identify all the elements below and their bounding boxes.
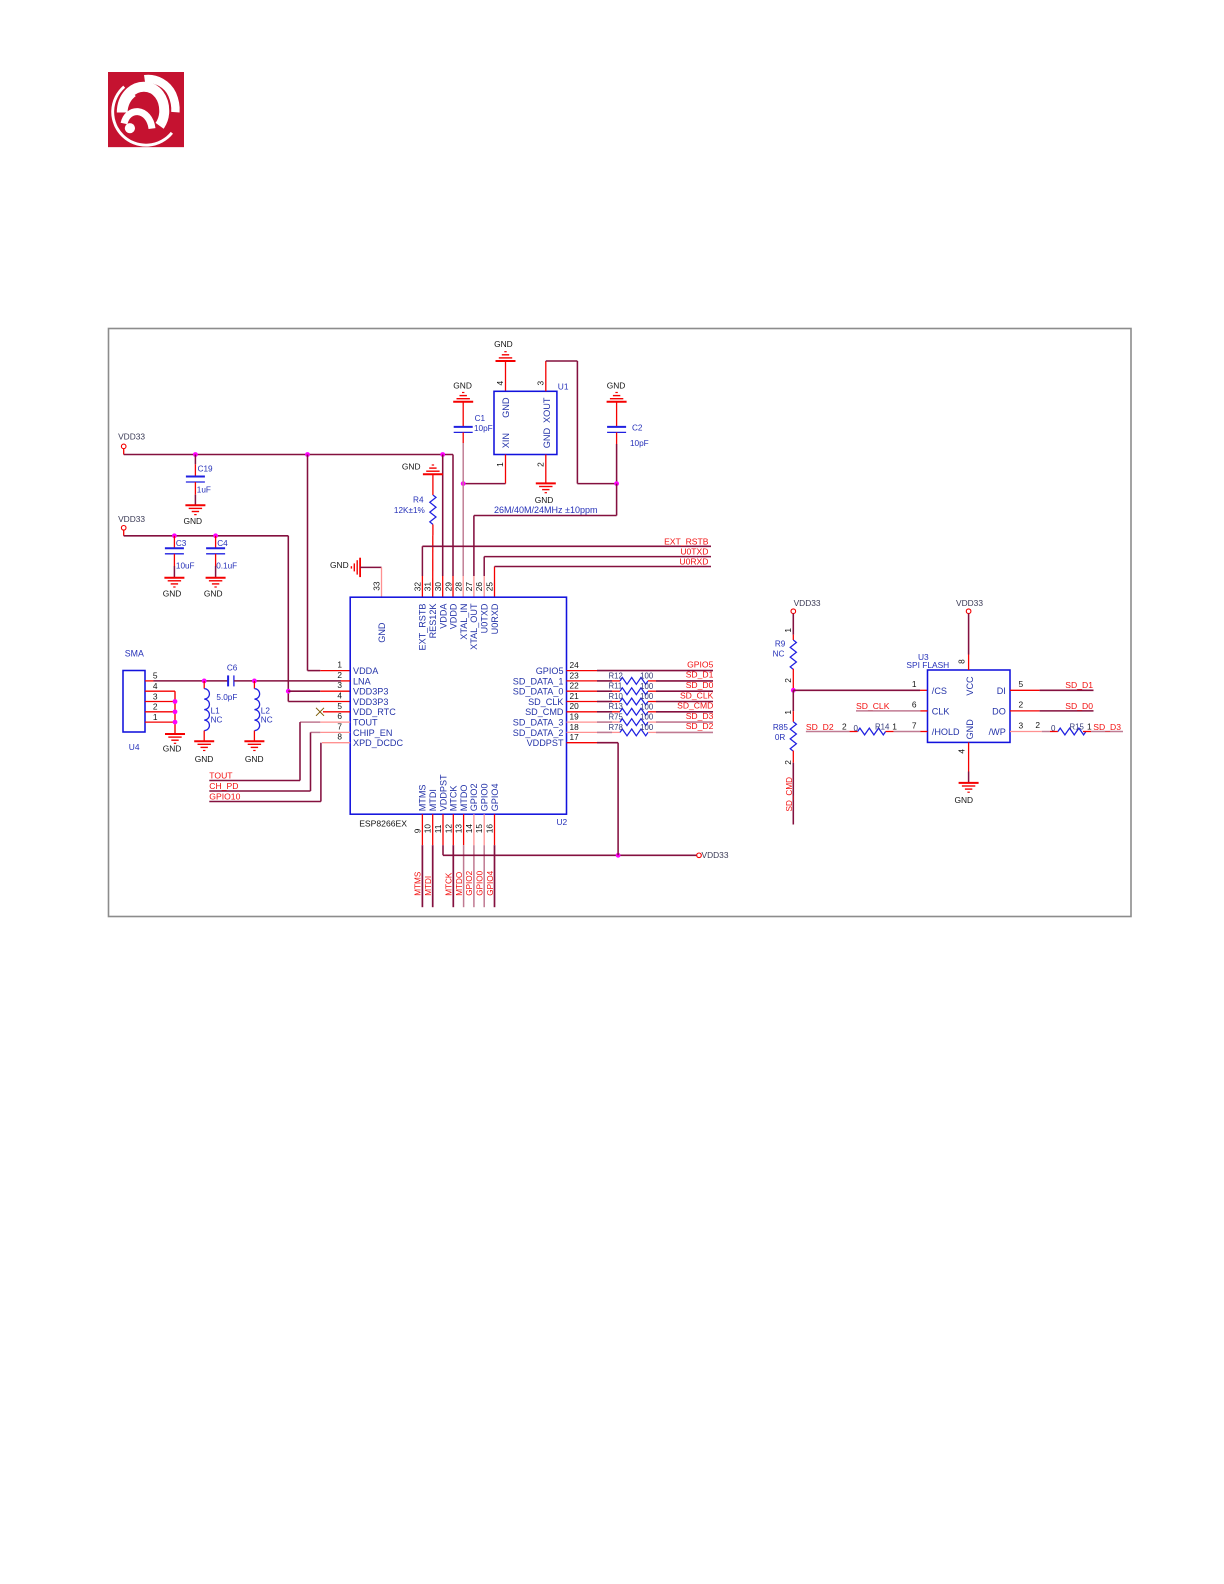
power port VDD33 rail2: [121, 526, 126, 531]
svg-text:C2: C2: [632, 423, 643, 432]
U2 pin11 stub: [442, 814, 444, 845]
svg-text:GPIO5: GPIO5: [687, 659, 713, 669]
junction L1: [202, 679, 207, 684]
wire SD_CMD left: [597, 711, 612, 713]
svg-text:C19: C19: [198, 465, 213, 474]
L1 top lead: [203, 681, 205, 689]
junction rail1/C19: [193, 452, 198, 457]
resistor R13: [620, 708, 648, 715]
svg-text:GPIO0: GPIO0: [480, 784, 490, 812]
U2 pin16 stub: [494, 814, 496, 845]
svg-text:31: 31: [423, 582, 433, 592]
svg-text:2: 2: [337, 670, 342, 680]
ground C2: [607, 393, 627, 402]
wire XIN horizontal: [463, 483, 505, 485]
wire SD_D3: [1091, 731, 1123, 733]
logo outer ring: [113, 87, 172, 145]
wire SD_D2 right: [656, 731, 713, 733]
R85 bottom lead: [792, 751, 794, 763]
U2 pin13 stub: [463, 814, 465, 845]
svg-text:SMA: SMA: [125, 649, 144, 659]
svg-text:R10: R10: [609, 692, 624, 701]
svg-text:23: 23: [570, 670, 580, 680]
U2 pin32 stub EXT_RSTB: [421, 576, 423, 597]
wire SD_D0: [1040, 710, 1094, 712]
svg-text:CLK: CLK: [932, 707, 950, 717]
U2 pin9 stub: [421, 814, 423, 845]
svg-text:100: 100: [640, 672, 654, 681]
svg-text:5: 5: [337, 701, 342, 711]
svg-text:1: 1: [495, 462, 505, 467]
wire GPIO10 down: [320, 743, 322, 802]
wire C19 to gnd: [194, 495, 196, 506]
svg-text:TOUT: TOUT: [209, 770, 233, 780]
wire SD_D3 right: [656, 721, 713, 723]
wire to pin4: [288, 701, 320, 703]
R10 pin2 lead: [648, 701, 656, 703]
svg-text:R14: R14: [875, 723, 890, 732]
wire XOUT top: [546, 360, 578, 362]
wire to pin3: [288, 690, 320, 692]
junction rail1/VDDA drop: [305, 452, 310, 457]
wire R9 to junction: [792, 682, 794, 690]
wire /CS: [793, 689, 920, 691]
capacitor C3: [165, 548, 184, 554]
logo wifi arc small: [124, 112, 152, 129]
svg-text:MTCK: MTCK: [449, 786, 459, 812]
junction VDDPST: [616, 853, 621, 858]
junction VDD3P3 branch: [286, 689, 291, 694]
svg-text:8: 8: [337, 732, 342, 742]
R78 pin1 lead: [612, 731, 620, 733]
C1 top lead: [462, 402, 464, 427]
svg-text:GND: GND: [183, 516, 202, 526]
wire XOUT down: [576, 361, 578, 484]
U3 pin4 stub: [968, 742, 970, 771]
wire U0RXD: [495, 566, 712, 568]
U2 pin stub SD_D2: [567, 731, 598, 733]
svg-text:XTAL_IN: XTAL_IN: [459, 604, 469, 640]
U3 pin2 stub DO: [1010, 710, 1040, 712]
R85 top lead: [792, 711, 794, 722]
svg-text:VDD33: VDD33: [118, 514, 145, 524]
svg-text:MTDI: MTDI: [428, 789, 438, 811]
svg-text:17: 17: [570, 732, 580, 742]
svg-text:GND: GND: [453, 381, 472, 391]
svg-text:14: 14: [464, 824, 474, 834]
svg-text:MTDI: MTDI: [424, 876, 433, 896]
wire SD_D0 left: [597, 690, 612, 692]
wire VDD33 to VCC: [968, 614, 970, 655]
svg-text:CH_PD: CH_PD: [209, 781, 238, 791]
svg-text:8: 8: [957, 659, 967, 664]
power port VDD33 rail1: [121, 444, 126, 449]
svg-text:C3: C3: [176, 539, 187, 548]
resistor R75: [620, 719, 648, 726]
svg-text:24: 24: [570, 660, 580, 670]
svg-text:SD_D0: SD_D0: [686, 680, 714, 690]
svg-text:VDD3P3: VDD3P3: [353, 687, 388, 697]
svg-text:R78: R78: [609, 723, 623, 732]
L1 bottom lead: [203, 731, 205, 742]
wire pin17 down to rail: [617, 743, 619, 856]
wire SD_D3 left: [597, 721, 612, 723]
R15 pin1 lead: [1083, 731, 1091, 733]
capacitor C19: [186, 477, 205, 483]
svg-text:SD_DATA_0: SD_DATA_0: [513, 687, 564, 697]
svg-text:12K±1%: 12K±1%: [394, 506, 425, 515]
U1 pin3 stub: [545, 361, 547, 391]
svg-text:100: 100: [640, 682, 654, 691]
wire TOUT horiz: [300, 721, 320, 723]
svg-text:0.1uF: 0.1uF: [216, 561, 237, 570]
svg-text:C4: C4: [217, 539, 228, 548]
svg-text:2: 2: [783, 678, 793, 683]
U4 gnd pin stub 3: [145, 721, 175, 723]
U2 pin29 stub: [452, 576, 454, 597]
wire VDD33 rail1: [124, 454, 453, 456]
U2 pin stub SD_D0: [567, 690, 598, 692]
R13 pin1 lead: [612, 711, 620, 713]
wire C4 to gnd: [215, 566, 217, 578]
ground C1: [453, 393, 473, 402]
svg-text:C1: C1: [475, 414, 486, 423]
ground L2: [244, 741, 264, 750]
svg-text:NC: NC: [211, 716, 223, 725]
U2 pin14 stub: [473, 814, 475, 845]
wire rail1 end to pin29: [452, 455, 454, 577]
svg-text:GND: GND: [494, 339, 513, 349]
capacitor C1: [454, 427, 473, 433]
junction R9/CS: [791, 688, 796, 693]
U2 pin12 stub: [452, 814, 454, 845]
U2 pin15 stub: [483, 814, 485, 845]
U2 pin27 stub: [473, 576, 475, 597]
svg-text:16: 16: [485, 824, 495, 834]
U4 gnd pin stub 0: [145, 690, 175, 692]
svg-text:XPD_DCDC: XPD_DCDC: [353, 738, 403, 748]
svg-text:R13: R13: [609, 702, 623, 711]
U2 pin5 stub: [323, 711, 350, 713]
svg-text:6: 6: [912, 700, 917, 710]
U3 pin5 stub DI: [1010, 689, 1040, 691]
wire U0TXD down: [483, 557, 485, 576]
IC U2 ESP8266EX body: [350, 597, 566, 814]
svg-text:DO: DO: [992, 707, 1006, 717]
svg-text:GND: GND: [245, 754, 264, 764]
wire U0TXD: [484, 556, 711, 558]
R9 top lead: [792, 635, 794, 640]
wire R14 to HOLD: [894, 731, 921, 733]
svg-text:4: 4: [153, 681, 158, 691]
svg-text:SD_D3: SD_D3: [1093, 722, 1121, 732]
U2 pin28 stub: [462, 576, 464, 597]
svg-text:VDD3P3: VDD3P3: [353, 697, 388, 707]
svg-text:SD_CLK: SD_CLK: [856, 701, 890, 711]
wire SD_CMD right: [656, 711, 713, 713]
svg-text:VDD33: VDD33: [956, 598, 983, 608]
svg-text:GPIO0: GPIO0: [476, 870, 485, 895]
power port VDD33 R9: [791, 609, 796, 614]
resistor R10: [620, 698, 648, 705]
svg-text:2: 2: [783, 760, 793, 765]
svg-text:SD_CMD: SD_CMD: [525, 707, 564, 717]
wire pin9 down: [421, 845, 423, 907]
U2 pin6 stub: [320, 721, 350, 723]
U2 pin17 stub: [567, 742, 598, 744]
svg-text:9: 9: [412, 828, 422, 833]
svg-text:22: 22: [570, 681, 580, 691]
R4 bottom lead: [432, 524, 434, 535]
svg-text:GPIO2: GPIO2: [469, 784, 479, 812]
svg-text:GND: GND: [501, 397, 511, 418]
svg-text:NC: NC: [261, 716, 273, 725]
wire C3 to gnd: [173, 566, 175, 578]
svg-text:GND: GND: [965, 719, 975, 740]
svg-text:L2: L2: [261, 707, 271, 716]
U2 pin25 stub U0RXD: [494, 567, 496, 598]
svg-text:7: 7: [912, 720, 917, 730]
crystal U1 body: [494, 391, 557, 454]
svg-text:MTCK: MTCK: [445, 872, 454, 896]
ground U1 pin2: [536, 483, 556, 492]
svg-text:VDDPST: VDDPST: [438, 774, 448, 811]
wire port to rail1: [123, 449, 125, 455]
svg-text:SD_D1: SD_D1: [1065, 680, 1093, 690]
svg-text:100: 100: [640, 723, 654, 732]
svg-text:XTAL_OUT: XTAL_OUT: [469, 603, 479, 650]
capacitor C6: [228, 675, 234, 686]
svg-text:5: 5: [153, 671, 158, 681]
U4 gnd pin stub 2: [145, 711, 175, 713]
svg-text:U0TXD: U0TXD: [680, 547, 708, 557]
junction U4 gnd a: [173, 699, 178, 704]
wire XTAL_OUT horizontal: [474, 515, 617, 517]
C2 bottom lead: [616, 432, 618, 444]
logo dot: [125, 123, 135, 133]
wire VDDA drop horizontal: [308, 670, 321, 672]
svg-text:GND: GND: [954, 795, 973, 805]
ground U2 pin33: [351, 558, 360, 577]
U4 pin5 stub: [145, 680, 154, 682]
svg-text:19: 19: [570, 712, 580, 722]
svg-text:10: 10: [423, 824, 433, 834]
ground C4: [206, 578, 226, 587]
svg-text:EXT_RSTB: EXT_RSTB: [418, 604, 428, 651]
svg-text:U0RXD: U0RXD: [490, 603, 500, 634]
power port VDD33 right: [697, 853, 702, 858]
wire C1 to XIN junction: [462, 443, 464, 484]
svg-text:15: 15: [474, 824, 484, 834]
C4 bottom lead: [215, 554, 217, 566]
R15 pin2 lead: [1050, 731, 1058, 733]
svg-text:SPI FLASH: SPI FLASH: [906, 660, 949, 670]
wire VDDPST rail: [443, 854, 697, 856]
svg-text:GND: GND: [204, 588, 223, 598]
svg-text:TOUT: TOUT: [353, 718, 378, 728]
svg-text:SD_CMD: SD_CMD: [785, 777, 794, 812]
Espressif logo: [108, 72, 184, 147]
svg-text:6: 6: [337, 711, 342, 721]
svg-text:XIN: XIN: [501, 433, 511, 448]
wire XOUT to C2: [577, 483, 616, 485]
svg-text:U0RXD: U0RXD: [679, 557, 708, 567]
svg-text:R11: R11: [609, 682, 623, 691]
svg-text:C6: C6: [227, 663, 238, 672]
svg-text:U4: U4: [129, 742, 140, 752]
svg-text:/CS: /CS: [932, 686, 947, 696]
R78 pin2 lead: [648, 731, 656, 733]
svg-text:MTMS: MTMS: [414, 871, 423, 896]
svg-text:GND: GND: [330, 560, 349, 570]
svg-text:SD_DATA_1: SD_DATA_1: [513, 676, 564, 686]
svg-text:10pF: 10pF: [630, 439, 649, 448]
wire rail1 to C19: [194, 455, 196, 465]
svg-text:4: 4: [337, 691, 342, 701]
U2 pin33 stub: [381, 567, 383, 597]
svg-text:3: 3: [337, 680, 342, 690]
svg-text:R85: R85: [773, 723, 788, 732]
wire rail1 to pin30: [442, 455, 444, 577]
svg-text:VDDA: VDDA: [353, 666, 379, 676]
wire junction to R85: [792, 690, 794, 711]
U2 pin30 stub: [442, 576, 444, 597]
svg-text:GPIO2: GPIO2: [465, 870, 474, 895]
wire CH_PD label row: [209, 790, 310, 792]
ground C19: [185, 505, 205, 514]
U1 pin1 stub: [505, 455, 507, 484]
U2 pin31 stub: [432, 535, 434, 597]
resistor R85: [790, 722, 796, 751]
capacitor C2: [607, 427, 626, 433]
svg-text:NC: NC: [773, 650, 785, 659]
svg-text:2: 2: [1019, 700, 1024, 710]
svg-text:VDD33: VDD33: [118, 432, 145, 442]
R14 pin1 lead: [886, 731, 894, 733]
wire SD_D1 left: [597, 680, 612, 682]
junction XOUT/C2: [614, 481, 619, 486]
svg-text:SD_CMD: SD_CMD: [677, 701, 713, 711]
svg-text:26: 26: [474, 582, 484, 592]
wire SD_D1: [1040, 689, 1094, 691]
ground C3: [164, 578, 184, 587]
wire pin14 down: [473, 845, 475, 907]
svg-text:18: 18: [570, 722, 580, 732]
svg-text:12: 12: [443, 824, 453, 834]
R13 pin2 lead: [648, 711, 656, 713]
svg-text:25: 25: [485, 582, 495, 592]
R12 pin1 lead: [612, 680, 620, 682]
wire SD_CLK right: [656, 701, 713, 703]
svg-text:GND: GND: [377, 622, 387, 643]
svg-text:0R: 0R: [775, 733, 786, 742]
svg-text:1uF: 1uF: [197, 486, 211, 495]
svg-text:100: 100: [640, 702, 654, 711]
wire pin10 down: [432, 845, 434, 907]
wire XTAL_OUT down to pin27: [473, 516, 475, 577]
svg-text:SD_D0: SD_D0: [1065, 701, 1093, 711]
wire VDD3P3 drop vertical: [287, 536, 289, 702]
wire SD_D1 right: [656, 680, 713, 682]
wire pin17: [597, 742, 618, 744]
svg-text:VDD33: VDD33: [702, 850, 729, 860]
wire port to rail2: [123, 530, 125, 536]
resistor R15: [1058, 728, 1086, 735]
R14 pin2 lead: [850, 731, 858, 733]
junction rail2/C4: [213, 533, 218, 538]
svg-text:2: 2: [153, 702, 158, 712]
junction XIN/C1: [461, 481, 466, 486]
C3 top lead: [173, 536, 175, 549]
svg-text:10pF: 10pF: [474, 424, 493, 433]
wire SD_CLK left: [597, 701, 612, 703]
svg-text:5: 5: [1019, 679, 1024, 689]
svg-text:10uF: 10uF: [176, 561, 195, 570]
C3 bottom lead: [173, 554, 175, 566]
svg-text:GND: GND: [542, 428, 552, 449]
svg-text:28: 28: [454, 582, 464, 592]
U3 pin3 stub WP: [1010, 731, 1042, 733]
U4 gnd pin stub 1: [145, 701, 175, 703]
wire SD_D2 left: [806, 731, 850, 733]
U2 pin2 LNA stub: [341, 680, 350, 682]
svg-text:2: 2: [842, 721, 847, 731]
junction U4 gnd c: [173, 720, 178, 725]
U2 pin4 stub: [320, 701, 350, 703]
svg-text:DI: DI: [997, 686, 1006, 696]
inductor L1: [204, 689, 209, 731]
svg-text:VCC: VCC: [965, 676, 975, 696]
svg-text:4: 4: [495, 381, 505, 386]
svg-text:4: 4: [957, 749, 967, 754]
U2 pin3 stub: [320, 690, 350, 692]
svg-text:1: 1: [892, 721, 897, 731]
svg-text:29: 29: [443, 582, 453, 592]
wire antenna left: [154, 680, 229, 682]
svg-text:13: 13: [454, 824, 464, 834]
logo wifi arc mid: [122, 87, 164, 126]
svg-text:VDD33: VDD33: [794, 598, 821, 608]
junction U4 gnd b: [173, 709, 178, 714]
svg-text:GPIO4: GPIO4: [486, 870, 495, 895]
svg-text:1: 1: [1087, 721, 1092, 731]
svg-text:3: 3: [153, 691, 158, 701]
svg-text:MTDO: MTDO: [459, 785, 469, 812]
wire port to R9: [792, 614, 794, 635]
wire SD_CLK: [856, 710, 920, 712]
wire EXT_RSTB down: [421, 546, 423, 576]
svg-text:R9: R9: [775, 640, 786, 649]
svg-text:11: 11: [433, 824, 443, 833]
wire VDDA drop vertical: [307, 455, 309, 671]
wire antenna right: [234, 680, 341, 682]
U2 pin7 stub: [320, 731, 350, 733]
svg-text:VDDA: VDDA: [438, 603, 448, 629]
svg-text:SD_DATA_3: SD_DATA_3: [513, 718, 564, 728]
wire C2 to XOUT junction: [616, 444, 618, 484]
wire XOUT junction down: [616, 484, 618, 516]
svg-text:XOUT: XOUT: [542, 397, 552, 423]
R12 pin2 lead: [648, 680, 656, 682]
svg-text:EXT_RSTB: EXT_RSTB: [664, 536, 709, 546]
svg-text:R12: R12: [609, 671, 623, 680]
svg-text:3: 3: [536, 381, 546, 386]
junction L2: [252, 679, 257, 684]
ground U1 pin4: [496, 352, 516, 361]
wire WP to R15: [1042, 731, 1050, 733]
svg-text:GND: GND: [607, 381, 626, 391]
svg-text:1: 1: [153, 712, 158, 722]
